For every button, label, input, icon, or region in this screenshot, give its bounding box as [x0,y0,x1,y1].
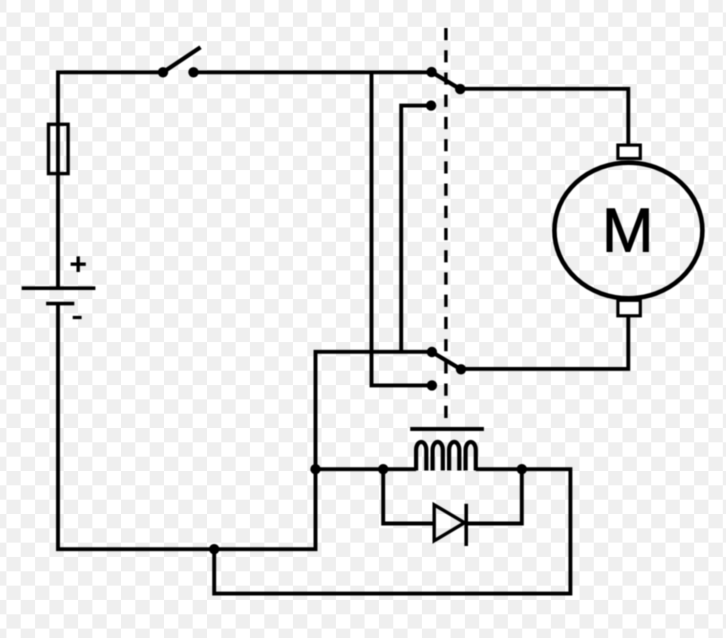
svg-text:M: M [602,197,654,266]
